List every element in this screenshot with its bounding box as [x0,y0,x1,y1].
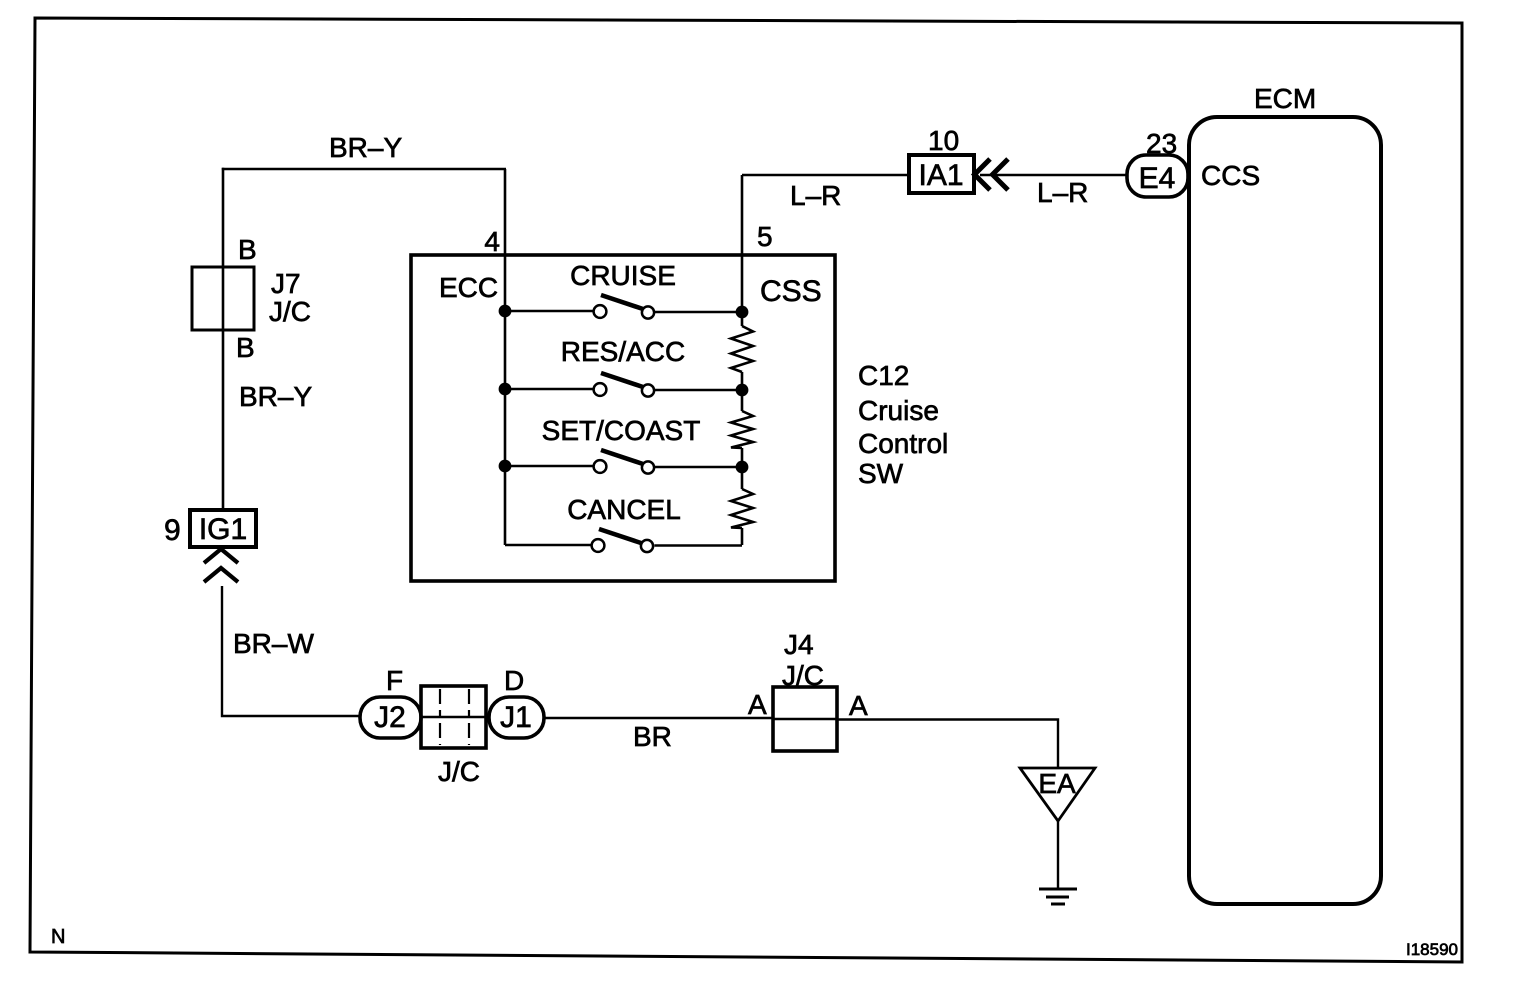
svg-text:CANCEL: CANCEL [567,494,681,525]
svg-text:J4: J4 [784,629,814,660]
svg-text:SW: SW [858,458,904,489]
switch CANCEL blade [599,529,641,543]
switch RES/ACC contacts [594,383,607,396]
svg-text:E4: E4 [1139,162,1176,195]
junction J/C box between J2 and J1 [421,686,486,748]
arrow chevrons at IA1 [975,159,1009,190]
left bus wire inside box [504,255,507,545]
svg-text:J1: J1 [500,701,532,734]
ECM box [1189,117,1381,904]
svg-text:9: 9 [164,514,181,547]
svg-text:IG1: IG1 [199,513,247,546]
switch SET/COAST contacts [594,460,607,473]
svg-text:B: B [236,332,255,363]
svg-text:BR–Y: BR–Y [329,132,402,163]
svg-text:4: 4 [484,226,500,257]
svg-text:ECC: ECC [439,272,498,303]
wire through J4 box [774,718,838,720]
wire BR from J1 to J4 [544,717,774,719]
connector IG1 box [190,510,256,547]
right bus segments [741,255,744,545]
svg-text:ECM: ECM [1254,83,1316,114]
svg-text:D: D [504,665,524,696]
resistor R1 [731,326,753,372]
node dot row3 left [499,460,512,473]
svg-text:Control: Control [858,428,948,459]
resistor R2 [731,411,753,448]
svg-text:Cruise: Cruise [858,395,939,426]
svg-text:J7: J7 [271,268,301,299]
svg-text:L–R: L–R [1037,177,1088,208]
ground symbol [1039,889,1077,904]
dashed split lines inside J/C [440,689,469,745]
svg-text:CSS: CSS [760,275,822,308]
node dot row3 right [736,461,749,474]
svg-text:BR: BR [633,721,672,752]
wire pin 5 vertical above box [741,175,744,256]
arrow chevrons below IG1 [204,549,238,582]
wire BR-W vertical and to J2 [222,586,362,716]
wire between J2 and J1 through J/C [390,716,516,718]
switch CRUISE blade [601,295,643,309]
node dot row1 right [736,306,749,319]
junction J7 J/C box [192,267,254,330]
wire EA to ground symbol [1057,821,1059,888]
svg-text:5: 5 [757,221,773,252]
svg-text:BR–W: BR–W [233,628,314,659]
svg-text:IA1: IA1 [918,159,963,192]
connector J2 stadium [360,697,421,738]
svg-text:CCS: CCS [1201,160,1260,191]
connector IA1 box [909,155,974,193]
svg-text:B: B [238,234,257,265]
svg-text:EA: EA [1038,768,1076,799]
svg-text:SET/COAST: SET/COAST [542,415,701,446]
node dot row2 left [499,383,512,396]
wire from J4 to EA ground [837,720,1058,770]
switch CANCEL contacts [592,539,605,552]
ground EA triangle [1020,768,1095,821]
wire pin 4 vertical above box [504,169,507,256]
svg-text:L–R: L–R [790,180,841,211]
svg-text:I18590: I18590 [1406,940,1458,959]
switch SET/COAST blade [601,450,643,464]
svg-text:CRUISE: CRUISE [570,260,676,291]
resistor R3 [731,489,753,528]
switch CRUISE contacts [594,305,607,318]
switch box C12 outline [411,255,835,581]
wire B vertical through J7 [222,168,225,511]
switch RES/ACC row wires [505,389,742,390]
svg-text:10: 10 [928,125,959,156]
wire L-R to E4 [980,174,1128,176]
node dot row2 right [736,384,749,397]
switch CANCEL row wires [505,544,742,547]
svg-text:N: N [51,926,65,948]
junction J4 box [773,687,837,751]
svg-text:A: A [748,689,767,720]
connector J1 stadium [489,697,544,738]
switch RES/ACC blade [601,373,643,387]
node dot row1 left [499,305,512,318]
wire BR-Y top horizontal [222,168,506,171]
svg-text:C12: C12 [858,360,909,391]
svg-text:RES/ACC: RES/ACC [561,336,685,367]
switch SET/COAST row wires [505,466,742,467]
switch CRUISE row wires [505,311,742,312]
connector E4 stadium [1127,155,1188,197]
wire CSS to IA1 [742,174,910,176]
svg-text:J/C: J/C [269,296,311,327]
svg-text:J/C: J/C [438,756,480,787]
svg-text:BR–Y: BR–Y [239,381,312,412]
svg-text:J2: J2 [374,701,406,734]
svg-text:A: A [849,690,868,721]
svg-text:F: F [386,665,403,696]
